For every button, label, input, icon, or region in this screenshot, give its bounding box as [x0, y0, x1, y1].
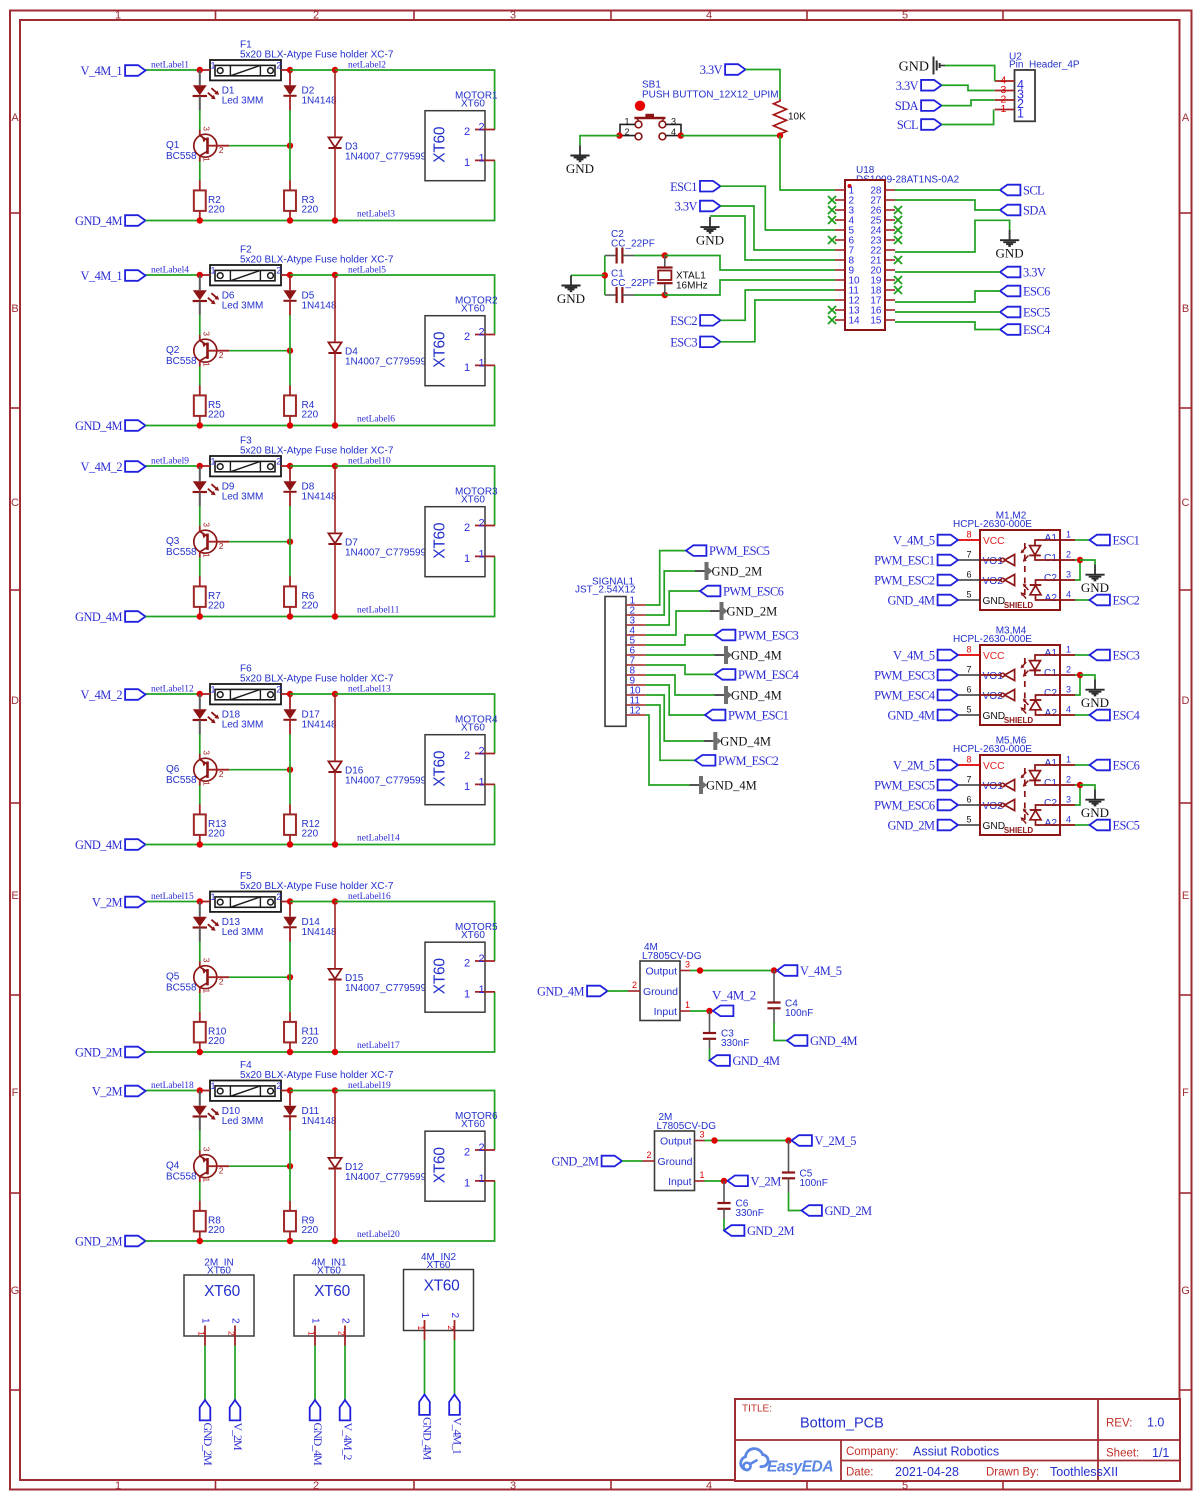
svg-text:ESC6: ESC6 [1023, 285, 1050, 299]
svg-text:5x20 BLX-Atype Fuse holder XC-: 5x20 BLX-Atype Fuse holder XC-7 [240, 1070, 394, 1081]
capacitor C6 [717, 1181, 730, 1219]
net flag PWM_ESC6 [700, 585, 784, 599]
svg-text:1: 1 [196, 1331, 206, 1336]
wire top rail net netLabel4 [146, 274, 200, 276]
frame right tick G [1180, 1389, 1192, 1391]
svg-text:1: 1 [464, 1177, 470, 1189]
wire M1,M2 C1-C2 tie [1075, 560, 1080, 580]
wire 4M output [690, 970, 774, 972]
svg-text:3: 3 [1066, 570, 1071, 580]
wire 4M_IN1 pin2 to V_4M_2 [344, 1346, 346, 1401]
svg-text:2: 2 [313, 10, 319, 22]
net flag GND_4M below 4M_IN2 pin1 [419, 1395, 434, 1461]
junction 2M output b [785, 1137, 791, 1143]
svg-text:1: 1 [464, 553, 470, 565]
wire top rail net netLabel2 [335, 70, 495, 130]
wire SIGNAL1 pin11 to PWM_ESC2 [646, 705, 695, 760]
svg-text:G: G [11, 1285, 20, 1297]
wire GND_2M to 2M [622, 1160, 643, 1162]
net flag PWM_ESC4 [715, 668, 799, 682]
svg-text:XT60: XT60 [461, 98, 485, 109]
svg-text:V_4M_2: V_4M_2 [341, 1423, 355, 1461]
svg-text:2: 2 [276, 1081, 281, 1091]
transistor Q5 [194, 958, 230, 994]
wire SCL to U2 pin1 [942, 110, 994, 125]
ground port GND_4M pin10 [704, 732, 771, 750]
svg-text:ESC2: ESC2 [1113, 594, 1140, 608]
ground port GND_4M pin8 [715, 686, 782, 704]
junction bottom R3 [287, 217, 293, 223]
svg-text:2: 2 [464, 126, 470, 138]
regulator 2M L7805CV-DG [643, 1130, 705, 1191]
svg-text:5: 5 [902, 10, 908, 22]
ground GND at SB1 [566, 145, 594, 176]
svg-text:220: 220 [208, 1036, 225, 1047]
wire Q3 base [229, 541, 290, 543]
wire 3.3V to U2 pin3 [942, 85, 995, 90]
svg-text:BC558: BC558 [166, 983, 197, 994]
svg-text:1: 1 [1017, 107, 1024, 121]
svg-text:Q6: Q6 [166, 764, 180, 775]
frame left tick A [10, 212, 20, 214]
svg-text:3: 3 [700, 1130, 705, 1140]
wire top rail net netLabel13 [335, 694, 495, 754]
junction fuse-right node [287, 272, 293, 278]
svg-text:220: 220 [302, 1036, 319, 1047]
svg-text:V_4M_2: V_4M_2 [81, 688, 123, 702]
svg-text:1: 1 [202, 781, 212, 786]
svg-text:ESC3: ESC3 [670, 335, 697, 349]
svg-text:8: 8 [967, 645, 972, 655]
connector MOTOR3 XT60 [425, 507, 495, 577]
svg-text:netLabel2: netLabel2 [348, 61, 386, 71]
lead D7 top [334, 466, 336, 533]
svg-text:Led 3MM: Led 3MM [222, 720, 264, 731]
svg-text:1: 1 [310, 1318, 321, 1324]
capacitor C1 [605, 287, 634, 303]
wire LED to Q2 [199, 315, 201, 335]
net flag PWM_ESC3 [715, 629, 799, 643]
svg-text:ESC6: ESC6 [1113, 759, 1140, 773]
net flag ESC5 [1090, 819, 1140, 833]
no-connect X U18 pin 26 [894, 206, 902, 214]
svg-text:Q1: Q1 [166, 140, 180, 151]
svg-text:1: 1 [464, 781, 470, 793]
svg-text:220: 220 [208, 1225, 225, 1236]
svg-text:Ground: Ground [658, 1156, 693, 1168]
svg-text:GND_4M: GND_4M [731, 648, 782, 662]
svg-text:Led 3MM: Led 3MM [222, 96, 264, 107]
LED D18 [193, 694, 220, 734]
junction fuse-right node [287, 691, 293, 697]
svg-text:F: F [1182, 1087, 1189, 1099]
svg-text:EasyEDA: EasyEDA [767, 1459, 833, 1476]
svg-text:XT60: XT60 [314, 1283, 351, 1300]
net flag ESC5 [1000, 306, 1050, 320]
fuse F1 [200, 60, 291, 80]
svg-text:Output: Output [645, 966, 677, 978]
diode D4 [328, 342, 341, 353]
wire XTAL bottom to U18 pin10 [665, 280, 835, 295]
diode D11 [283, 1091, 296, 1131]
svg-text:3.3V: 3.3V [700, 63, 723, 77]
net flag V_2M at 2M input [728, 1174, 782, 1188]
svg-text:2: 2 [464, 1146, 470, 1158]
lead D3 top [334, 70, 336, 137]
svg-text:1: 1 [115, 1480, 121, 1492]
svg-text:Date:: Date: [846, 1467, 874, 1479]
svg-text:VO2: VO2 [983, 801, 1004, 812]
net flag GND_2M below C5 [802, 1204, 872, 1218]
junction bottom R11 [287, 1049, 293, 1055]
transistor Q6 [194, 750, 230, 786]
svg-text:3: 3 [510, 1480, 516, 1492]
junction D7 top node [332, 463, 338, 469]
connector SIGNAL1 JST_2.54X12 [605, 595, 646, 726]
ground GND left of U18 [696, 217, 724, 248]
svg-text:XT60: XT60 [204, 1283, 241, 1300]
svg-text:1N4148: 1N4148 [302, 96, 337, 107]
resistor R6 [284, 576, 296, 616]
wire SIGNAL1 pin4 to GND_2M [646, 611, 710, 635]
net flag PWM_ESC6 at M5,M6 [874, 799, 958, 813]
net flag PWM_ESC5 [686, 544, 770, 558]
diode D15 [328, 969, 341, 980]
frame bottom tick 1 [215, 1480, 217, 1490]
svg-text:5x20 BLX-Atype Fuse holder XC-: 5x20 BLX-Atype Fuse holder XC-7 [240, 673, 394, 684]
svg-text:HCPL-2630-000E: HCPL-2630-000E [953, 634, 1032, 645]
svg-text:5x20 BLX-Atype Fuse holder XC-: 5x20 BLX-Atype Fuse holder XC-7 [240, 49, 394, 60]
wire caps left vertical [604, 256, 606, 296]
wire base to R11 [289, 977, 291, 1012]
svg-text:PWM_ESC4: PWM_ESC4 [738, 668, 799, 682]
frame left tick B [10, 407, 20, 409]
wire top rail net netLabel10 [335, 466, 495, 526]
wire D14 to base [289, 942, 291, 978]
svg-text:2: 2 [219, 769, 224, 779]
svg-text:A2: A2 [1045, 818, 1058, 829]
wire C3 to GND_4M [709, 1049, 711, 1061]
junction bottom D3 [332, 217, 338, 223]
no-connect X U18 pin 13 [828, 306, 836, 314]
wire top rail net netLabel5 [335, 275, 495, 335]
svg-text:1N4007_C779599: 1N4007_C779599 [345, 776, 427, 787]
wire D8 to base [289, 506, 291, 542]
svg-text:3: 3 [202, 522, 212, 527]
ground GND at M5,M6 [1081, 790, 1109, 821]
svg-text:3: 3 [671, 116, 676, 126]
wire M5,M6 pin1 to ESC6 [1075, 764, 1090, 766]
svg-text:4: 4 [1066, 705, 1071, 715]
fuse F2 [200, 265, 291, 285]
svg-text:1N4148: 1N4148 [302, 492, 337, 503]
svg-text:1: 1 [202, 553, 212, 558]
diode D5 [283, 275, 296, 315]
svg-text:2: 2 [479, 517, 485, 529]
connector 4M_IN1 XT60 [294, 1275, 364, 1346]
svg-text:V_4M_5: V_4M_5 [893, 649, 935, 663]
junction 4M input [706, 1008, 712, 1014]
junction fuse-right node [287, 1087, 293, 1093]
frame bottom tick 3 [610, 1480, 612, 1490]
junction fuse-right node [287, 463, 293, 469]
EasyEDA logo [741, 1449, 834, 1476]
lead D15 bottom [334, 980, 336, 1053]
svg-text:C2: C2 [1044, 798, 1057, 809]
svg-text:2: 2 [464, 957, 470, 969]
svg-text:220: 220 [302, 205, 319, 216]
LED D9 [193, 466, 220, 506]
svg-text:B: B [11, 303, 18, 315]
svg-text:Drawn By:: Drawn By: [986, 1467, 1039, 1479]
svg-text:3: 3 [202, 331, 212, 336]
svg-text:ESC5: ESC5 [1113, 819, 1140, 833]
wire SDA to U2 pin2 [942, 100, 995, 106]
svg-text:JST_2.54X12: JST_2.54X12 [575, 584, 636, 595]
svg-text:GND_4M: GND_4M [733, 1054, 780, 1068]
svg-text:ToothlessXII: ToothlessXII [1050, 1465, 1118, 1479]
net flag 3.3V at U2 [896, 79, 942, 93]
wire 4M_IN1 pin1 to GND_4M [314, 1346, 316, 1401]
connector 4M_IN2 XT60 [404, 1270, 474, 1341]
net flag SCL [1000, 184, 1044, 198]
wire SIGNAL1 pin2 to GND_2M [646, 571, 695, 615]
wire 2M input [705, 1180, 729, 1182]
frame right tick A [1180, 212, 1192, 214]
svg-text:VO2: VO2 [983, 691, 1004, 702]
wire bottom rail net netLabel6 [146, 365, 495, 425]
wire Q2 to R5 [199, 367, 201, 386]
svg-text:1N4007_C779599: 1N4007_C779599 [345, 1172, 427, 1183]
svg-text:2: 2 [219, 541, 224, 551]
svg-text:GND: GND [557, 291, 585, 306]
junction caps-GND [602, 272, 608, 278]
svg-text:GND_2M: GND_2M [75, 1235, 122, 1249]
wire 4M_IN2 pin2 to V_4M_1 [454, 1340, 456, 1395]
svg-text:V_4M_2: V_4M_2 [712, 988, 756, 1003]
net flag ESC4 [1000, 323, 1050, 337]
svg-text:V_4M_1: V_4M_1 [451, 1417, 465, 1455]
svg-text:6: 6 [967, 795, 972, 805]
svg-text:XT60: XT60 [461, 930, 485, 941]
frame top tick 3 [610, 10, 612, 20]
no-connect X U18 pin 4 [828, 216, 836, 224]
svg-text:4: 4 [1066, 590, 1071, 600]
frame right tick F [1180, 1192, 1192, 1194]
svg-text:7: 7 [967, 550, 972, 560]
svg-text:netLabel18: netLabel18 [151, 1081, 194, 1091]
no-connect X U18 pin 6 [828, 236, 836, 244]
junction 2M output a [711, 1137, 717, 1143]
svg-text:GND_4M: GND_4M [75, 610, 122, 624]
net flag GND_4M [75, 610, 145, 624]
frame right tick C [1180, 589, 1192, 591]
net flag ESC1 [670, 180, 720, 194]
svg-text:GND_4M: GND_4M [888, 709, 935, 723]
svg-text:PWM_ESC3: PWM_ESC3 [874, 669, 935, 683]
wire SIGNAL1 pin1 to PWM_ESC5 [646, 551, 686, 605]
svg-text:netLabel19: netLabel19 [348, 1081, 391, 1091]
svg-text:1: 1 [685, 1000, 690, 1010]
push button SB1 [620, 101, 681, 140]
svg-text:1N4148: 1N4148 [302, 301, 337, 312]
svg-text:GND_2M: GND_2M [888, 819, 935, 833]
net flag V_4M_1 [81, 269, 146, 283]
svg-text:PWM_ESC5: PWM_ESC5 [874, 779, 935, 793]
fuse F6 [200, 684, 291, 704]
svg-text:F: F [12, 1087, 19, 1099]
svg-text:1N4007_C779599: 1N4007_C779599 [345, 548, 427, 559]
wire SIGNAL1 pin3 to PWM_ESC6 [646, 591, 700, 625]
svg-text:1/1: 1/1 [1152, 1446, 1169, 1460]
wire LED to Q6 [199, 734, 201, 754]
wire base to R6 [289, 542, 291, 577]
wire SIGNAL1 pin12 to GND_4M [646, 715, 690, 785]
svg-text:2: 2 [276, 456, 281, 466]
junction bottom R8 [197, 1238, 203, 1244]
svg-text:XT60: XT60 [461, 494, 485, 505]
svg-text:1N4148: 1N4148 [302, 1116, 337, 1127]
svg-text:A: A [1182, 112, 1190, 124]
svg-text:GND_2M: GND_2M [552, 1155, 599, 1169]
wire U18 pin16 to ESC5 [895, 311, 1000, 313]
svg-text:netLabel5: netLabel5 [348, 266, 386, 276]
svg-text:Bottom_PCB: Bottom_PCB [800, 1416, 884, 1432]
net flag V_4M_5 at M1,M2 [893, 534, 958, 548]
regulator 4M L7805CV-DG [628, 960, 690, 1021]
svg-text:1: 1 [416, 1326, 426, 1331]
net flag GND_4M [75, 419, 145, 433]
svg-text:ESC3: ESC3 [1113, 649, 1140, 663]
svg-text:V_4M_2: V_4M_2 [81, 460, 123, 474]
lead D7 bottom [334, 544, 336, 617]
frame right tick E [1180, 994, 1192, 996]
wire LED to Q4 [199, 1131, 201, 1151]
resistor R13 [194, 804, 206, 844]
wire SIGNAL1 pin8 to GND_4M [646, 675, 715, 695]
wire M3,M4 C1-C2 tie [1075, 675, 1080, 695]
diode D17 [283, 694, 296, 734]
capacitor C5 [782, 1141, 795, 1193]
junction bottom R7 [197, 613, 203, 619]
svg-text:GND_2M: GND_2M [825, 1204, 872, 1218]
net flag V_2M below 2M_IN pin2 [230, 1400, 245, 1451]
svg-text:B: B [1182, 303, 1189, 315]
lead D12 top [334, 1091, 336, 1158]
net flag 3.3V right of U18 [1000, 266, 1046, 280]
junction D16 top node [332, 691, 338, 697]
junction bottom D4 [332, 422, 338, 428]
svg-text:ESC1: ESC1 [670, 180, 697, 194]
wire 3.3V to R pullup [746, 70, 781, 100]
svg-text:5: 5 [967, 590, 972, 600]
svg-text:1: 1 [202, 989, 212, 994]
net flag GND_4M at M3,M4 [888, 709, 958, 723]
wire M1,M2 pin4 to ESC2 [1075, 599, 1090, 601]
ground port GND_4M pin12 [690, 776, 757, 794]
svg-text:1: 1 [211, 892, 216, 902]
svg-text:A1: A1 [1045, 648, 1058, 659]
svg-text:5x20 BLX-Atype Fuse holder XC-: 5x20 BLX-Atype Fuse holder XC-7 [240, 254, 394, 265]
svg-text:7: 7 [967, 775, 972, 785]
svg-text:2: 2 [340, 1318, 351, 1324]
frame top tick 2 [413, 10, 415, 20]
svg-text:GND_4M: GND_4M [731, 688, 782, 702]
net flag GND_4M below C4 [787, 1034, 857, 1048]
svg-text:REV:: REV: [1106, 1418, 1132, 1430]
svg-text:2: 2 [230, 1318, 241, 1324]
svg-text:GND_2M: GND_2M [75, 1046, 122, 1060]
wire bottom rail net netLabel11 [146, 556, 495, 616]
wire SB1 to 10K [681, 135, 780, 137]
capacitor C3 [703, 1011, 716, 1049]
net flag GND_2M [75, 1235, 145, 1249]
svg-text:GND_4M: GND_4M [720, 734, 771, 748]
svg-text:220: 220 [208, 410, 225, 421]
frame left tick D [10, 802, 20, 804]
no-connect X U18 pin 24 [894, 226, 902, 234]
junction M3,M4 C1 [1077, 672, 1083, 678]
svg-text:VO1: VO1 [983, 671, 1004, 682]
junction SB1 pin4 [678, 132, 684, 138]
wire bottom rail net netLabel14 [146, 784, 495, 844]
svg-text:XT60: XT60 [432, 522, 449, 559]
svg-text:C1: C1 [1044, 553, 1057, 564]
svg-text:SDA: SDA [1023, 204, 1047, 218]
wire LED to Q5 [199, 942, 201, 962]
net flag GND_4M below 4M_IN1 pin1 [310, 1400, 325, 1466]
svg-text:220: 220 [302, 410, 319, 421]
svg-text:2: 2 [1066, 775, 1071, 785]
connector 2M_IN XT60 [184, 1275, 254, 1346]
junction XTAL1 top [662, 252, 668, 258]
svg-text:2: 2 [632, 980, 637, 990]
svg-text:netLabel9: netLabel9 [151, 457, 189, 467]
junction base node [287, 974, 293, 980]
net flag PWM_ESC2 at M1,M2 [874, 574, 958, 588]
wire top rail mid [290, 901, 335, 903]
resistor R4 [284, 385, 296, 425]
svg-text:netLabel20: netLabel20 [357, 1230, 400, 1240]
wire Q3 to R7 [199, 558, 201, 577]
svg-text:330nF: 330nF [721, 1038, 749, 1049]
junction bottom R9 [287, 1238, 293, 1244]
svg-text:3: 3 [202, 958, 212, 963]
svg-text:2: 2 [625, 127, 630, 137]
svg-text:1.0: 1.0 [1147, 1416, 1164, 1430]
wire U18 pin15 to ESC4 [895, 322, 1000, 330]
svg-text:GND: GND [983, 821, 1006, 832]
svg-text:SHIELD: SHIELD [1004, 716, 1034, 725]
svg-text:A: A [11, 112, 19, 124]
wire Q4 base [229, 1165, 290, 1167]
ground port GND at U2 [899, 57, 945, 75]
junction base node [287, 143, 293, 149]
svg-text:Led 3MM: Led 3MM [222, 927, 264, 938]
net flag V_4M_2 [81, 688, 146, 702]
net flag PWM_ESC5 at M5,M6 [874, 779, 958, 793]
svg-text:330nF: 330nF [736, 1208, 764, 1219]
svg-text:PWM_ESC3: PWM_ESC3 [738, 629, 799, 643]
svg-text:Q5: Q5 [166, 972, 180, 983]
svg-text:1: 1 [479, 1173, 485, 1185]
transistor Q2 [194, 331, 230, 367]
LED D6 [193, 275, 220, 315]
svg-text:GND: GND [983, 596, 1006, 607]
svg-text:PUSH BUTTON_12X12_UPIM: PUSH BUTTON_12X12_UPIM [642, 89, 779, 100]
svg-text:1N4007_C779599: 1N4007_C779599 [345, 152, 427, 163]
wire C4 to GND_4M [774, 1023, 787, 1041]
